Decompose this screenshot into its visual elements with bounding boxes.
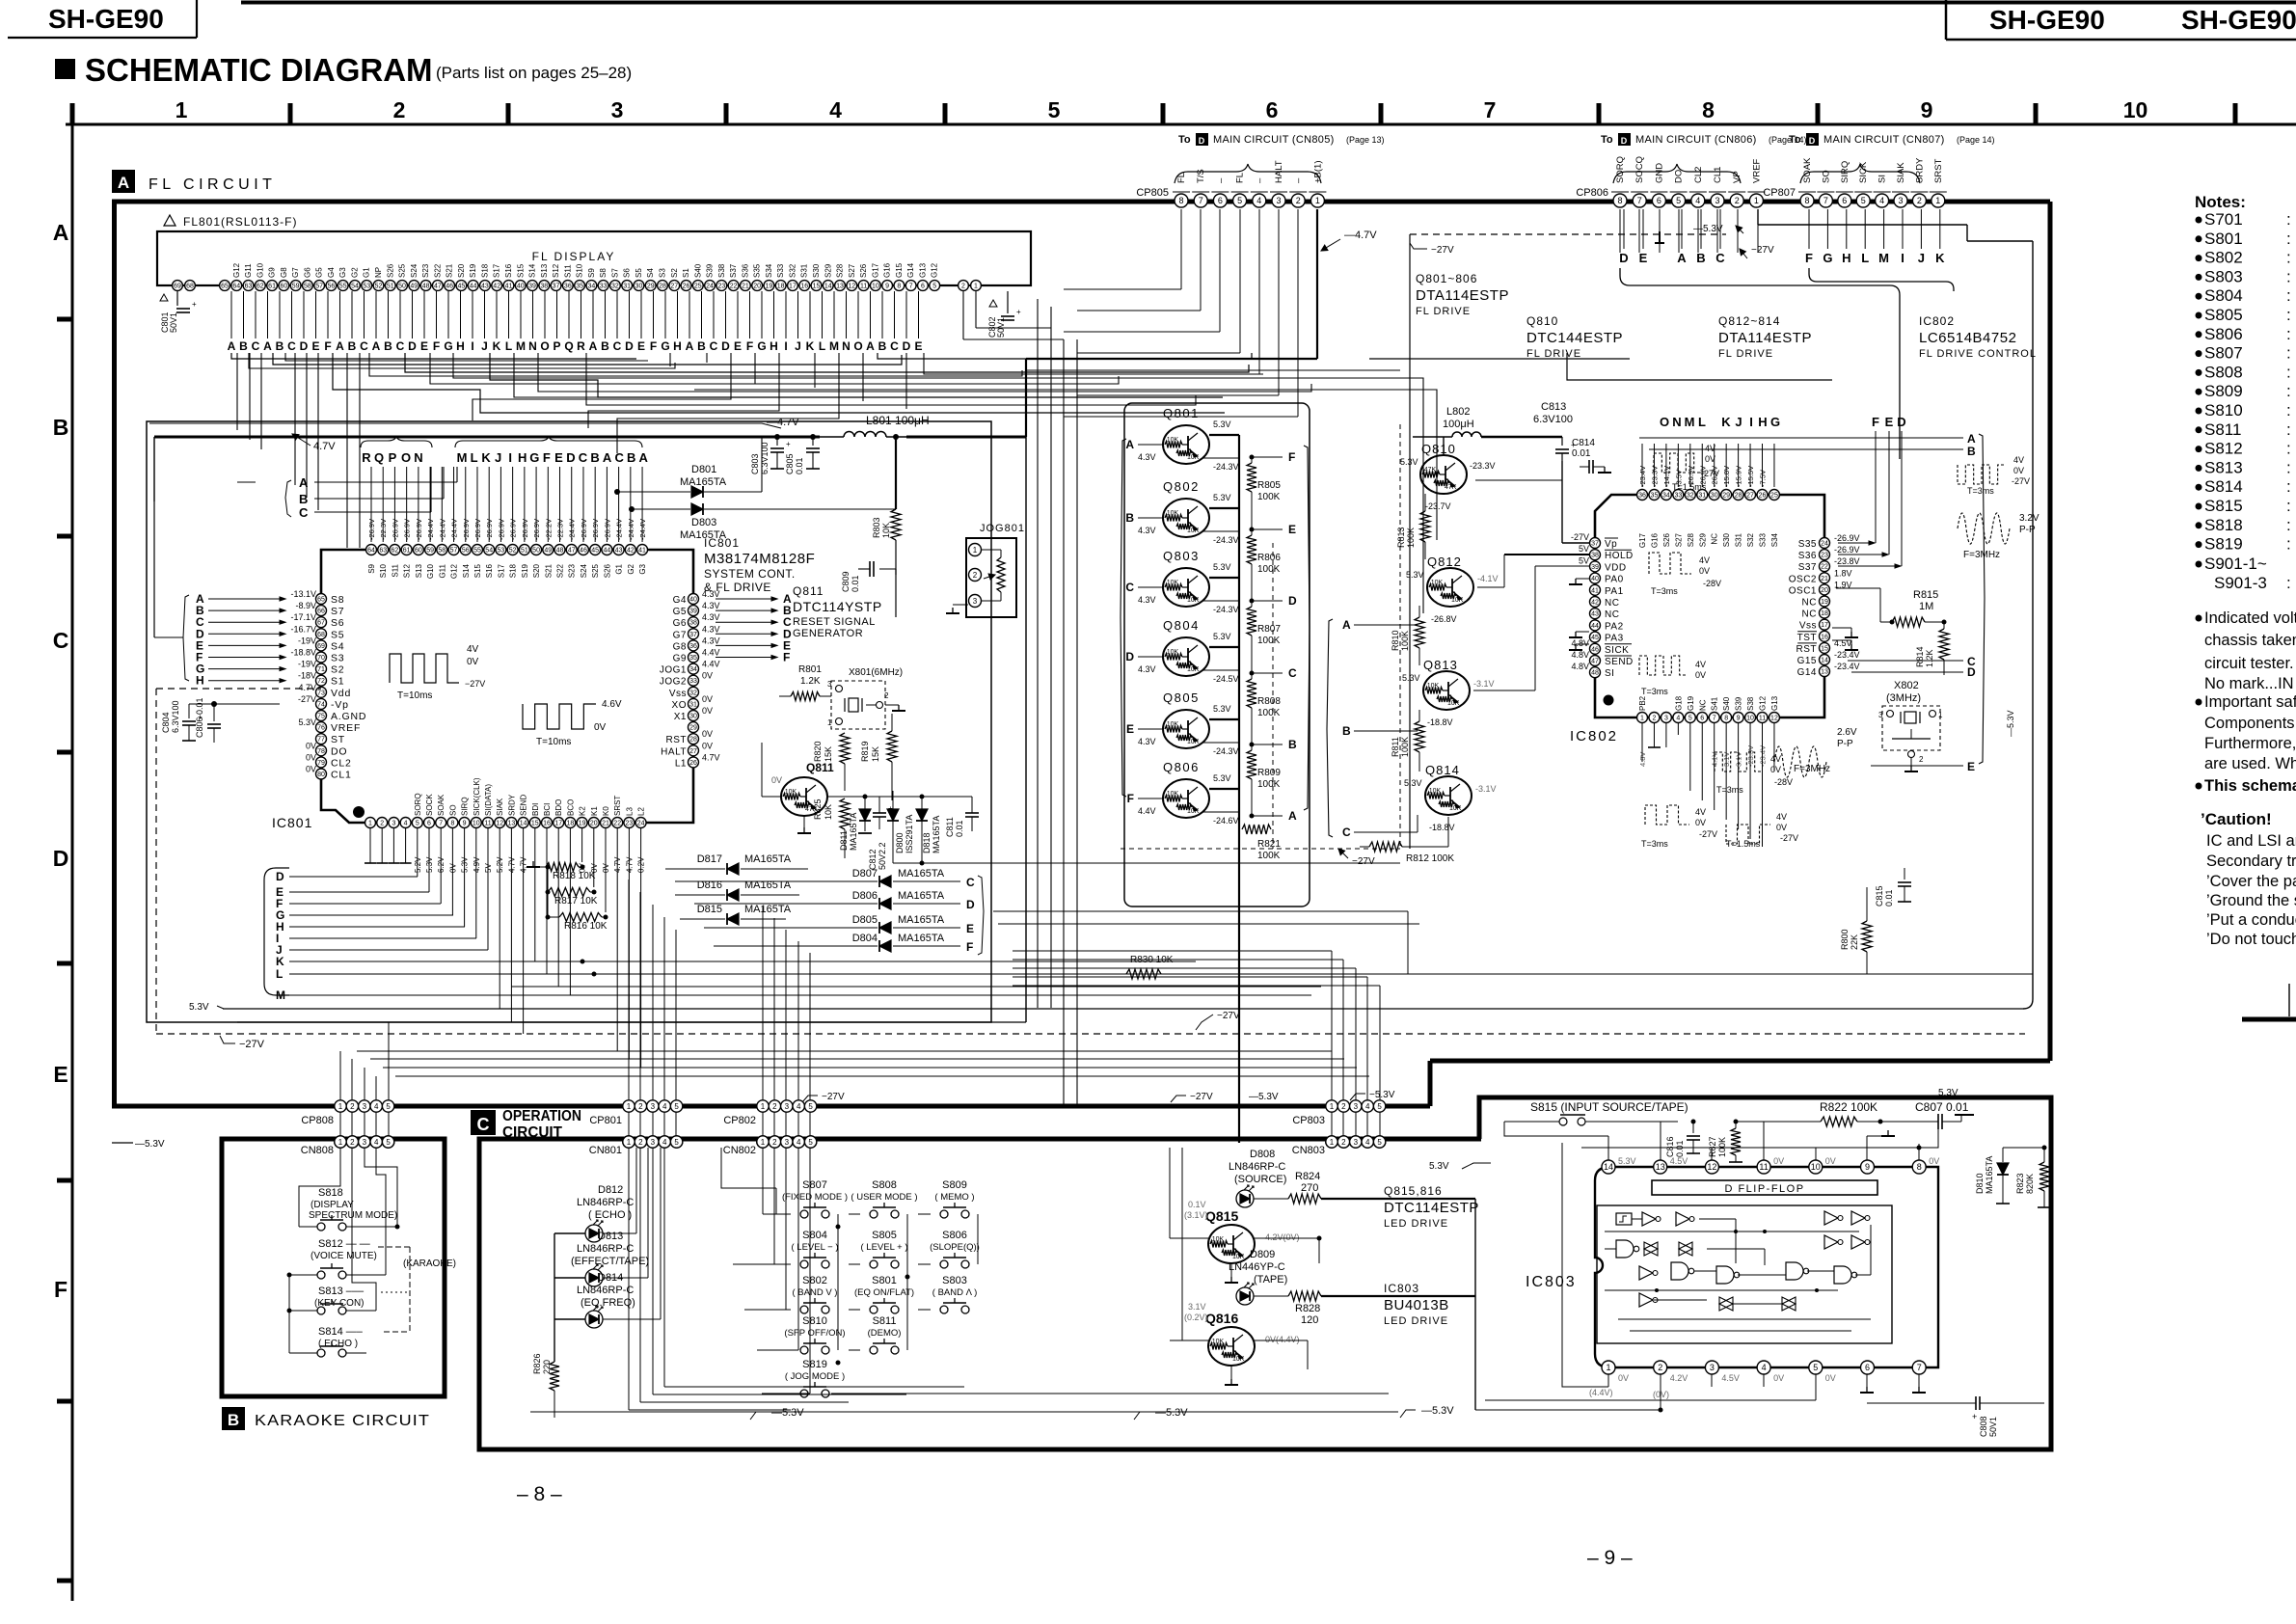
svg-text:D: D bbox=[966, 898, 975, 911]
svg-text:D: D bbox=[1619, 251, 1628, 265]
svg-text:5V: 5V bbox=[1579, 555, 1589, 565]
svg-text:3: 3 bbox=[785, 1102, 790, 1111]
svg-text:G7: G7 bbox=[673, 630, 687, 640]
svg-text:45: 45 bbox=[1591, 635, 1599, 641]
svg-text:4.3V: 4.3V bbox=[702, 636, 720, 645]
svg-text:S810: S810 bbox=[802, 1315, 827, 1327]
svg-text:0V: 0V bbox=[1825, 1156, 1836, 1166]
svg-text:5.3V: 5.3V bbox=[1213, 773, 1231, 783]
svg-text:Q812: Q812 bbox=[1427, 555, 1462, 569]
svg-text:B: B bbox=[384, 339, 392, 353]
svg-text:5.3V: 5.3V bbox=[1618, 1156, 1636, 1166]
svg-text:Q811: Q811 bbox=[793, 584, 824, 598]
svg-text:9: 9 bbox=[885, 284, 889, 290]
svg-text:63: 63 bbox=[245, 284, 253, 290]
svg-text:M38174M8128F: M38174M8128F bbox=[704, 551, 815, 567]
svg-text:50V1: 50V1 bbox=[169, 312, 178, 333]
svg-text:5: 5 bbox=[674, 1138, 679, 1147]
svg-text:(4.4V): (4.4V) bbox=[1589, 1388, 1613, 1397]
svg-text:47: 47 bbox=[568, 548, 576, 555]
svg-text:3: 3 bbox=[973, 597, 978, 606]
svg-text:50: 50 bbox=[398, 284, 406, 290]
svg-text:R809: R809 bbox=[1257, 768, 1281, 778]
svg-text:Q810: Q810 bbox=[1421, 442, 1456, 456]
svg-text:3: 3 bbox=[611, 97, 624, 122]
svg-text:C: C bbox=[299, 505, 309, 520]
svg-text:-24.4V: -24.4V bbox=[450, 519, 459, 540]
svg-text:G12: G12 bbox=[1759, 695, 1768, 711]
svg-text:14: 14 bbox=[520, 821, 527, 827]
svg-text:0V: 0V bbox=[1695, 818, 1706, 827]
svg-text:S808: S808 bbox=[2204, 363, 2243, 381]
svg-text:30: 30 bbox=[689, 714, 697, 720]
svg-text:S11: S11 bbox=[391, 563, 399, 577]
svg-text:B: B bbox=[1288, 738, 1297, 751]
svg-text:28: 28 bbox=[1735, 493, 1742, 500]
svg-text:42: 42 bbox=[1591, 600, 1599, 607]
svg-text:( ECHO ): ( ECHO ) bbox=[588, 1209, 632, 1221]
svg-text:– 8 –: – 8 – bbox=[517, 1483, 562, 1505]
svg-text:S806: S806 bbox=[942, 1230, 967, 1241]
svg-text:E: E bbox=[637, 339, 645, 353]
svg-text:(EQ.FREQ): (EQ.FREQ) bbox=[581, 1297, 635, 1309]
svg-text:P-P: P-P bbox=[1837, 739, 1853, 749]
IC801 left pins bbox=[316, 594, 327, 605]
svg-text:5: 5 bbox=[808, 1138, 813, 1147]
svg-text:C816: C816 bbox=[1665, 1136, 1675, 1157]
svg-text:22: 22 bbox=[730, 284, 738, 290]
svg-text:-26.9V: -26.9V bbox=[591, 519, 600, 540]
IC802 bottom pin stubs bbox=[1641, 723, 1643, 762]
svg-text:50V1: 50V1 bbox=[1988, 1417, 1998, 1437]
IC803 top pins bbox=[1602, 1160, 1615, 1174]
svg-text:E: E bbox=[1639, 251, 1648, 265]
svg-text:N: N bbox=[414, 450, 422, 465]
svg-text:M: M bbox=[516, 339, 526, 353]
svg-text:—5.3V: —5.3V bbox=[2006, 710, 2015, 737]
svg-text:(FIXED MODE ): (FIXED MODE ) bbox=[782, 1192, 848, 1203]
svg-text:—4.7V: —4.7V bbox=[767, 417, 799, 428]
svg-text:Q813: Q813 bbox=[1423, 658, 1458, 672]
svg-text:−27V: −27V bbox=[1431, 245, 1454, 256]
svg-text:SOCK: SOCK bbox=[425, 794, 434, 816]
svg-text:4.3V: 4.3V bbox=[702, 589, 720, 599]
svg-text:S27: S27 bbox=[1674, 532, 1683, 547]
svg-text:S41: S41 bbox=[1711, 696, 1719, 711]
svg-text:8: 8 bbox=[1804, 196, 1809, 205]
svg-text:8: 8 bbox=[1702, 97, 1715, 122]
svg-text:32: 32 bbox=[1687, 493, 1694, 500]
svg-text:64: 64 bbox=[367, 548, 375, 555]
svg-text:17: 17 bbox=[1821, 622, 1828, 629]
svg-text:VREF: VREF bbox=[1751, 158, 1762, 183]
svg-text:R805: R805 bbox=[1257, 480, 1281, 491]
svg-text:CN802: CN802 bbox=[723, 1145, 756, 1156]
svg-text:D: D bbox=[1288, 594, 1297, 608]
wire braid extra lines bbox=[249, 353, 675, 368]
inner box around IC801 area bbox=[147, 421, 991, 1022]
svg-text:Q804: Q804 bbox=[1163, 618, 1200, 633]
svg-text:28: 28 bbox=[689, 737, 697, 744]
svg-text:S802: S802 bbox=[2204, 249, 2243, 267]
svg-text:0.1V: 0.1V bbox=[1188, 1200, 1206, 1209]
svg-text:12: 12 bbox=[496, 821, 503, 827]
svg-text:S18: S18 bbox=[480, 263, 489, 278]
svg-text:39: 39 bbox=[689, 609, 697, 615]
FL801 pins bbox=[173, 281, 183, 291]
svg-text:-19V: -19V bbox=[298, 636, 316, 645]
svg-text:C: C bbox=[966, 876, 975, 889]
svg-text:OPERATION: OPERATION bbox=[502, 1108, 581, 1124]
svg-text:S8: S8 bbox=[599, 268, 608, 278]
svg-text:PA3: PA3 bbox=[1605, 634, 1624, 644]
svg-text:B: B bbox=[348, 339, 357, 353]
svg-text:9: 9 bbox=[1921, 97, 1933, 122]
svg-text:5.3V: 5.3V bbox=[1404, 778, 1422, 788]
svg-text:A: A bbox=[603, 450, 612, 465]
svg-text:69: 69 bbox=[317, 643, 325, 650]
svg-text:T=3ms: T=3ms bbox=[1641, 839, 1668, 849]
wire CP803 bus verticals bbox=[1331, 951, 1333, 1140]
svg-text:S23: S23 bbox=[568, 563, 577, 578]
wire rows E mesh bbox=[357, 1050, 1332, 1052]
svg-text:L2: L2 bbox=[637, 807, 646, 816]
svg-text:Notes:: Notes: bbox=[2195, 193, 2246, 211]
svg-text:G5: G5 bbox=[315, 267, 324, 278]
svg-text:-26.9V: -26.9V bbox=[403, 519, 412, 540]
svg-text:19: 19 bbox=[579, 821, 586, 827]
svg-text:X1: X1 bbox=[674, 712, 687, 722]
svg-text:S29: S29 bbox=[824, 263, 832, 278]
svg-text:10K: 10K bbox=[1167, 791, 1179, 798]
svg-text:S11: S11 bbox=[563, 264, 572, 278]
svg-text:2: 2 bbox=[1917, 196, 1922, 205]
svg-text:1: 1 bbox=[1935, 196, 1940, 205]
svg-text:S33: S33 bbox=[1759, 532, 1768, 547]
svg-text:4.5V: 4.5V bbox=[1721, 1373, 1740, 1383]
svg-text:47: 47 bbox=[1591, 659, 1599, 665]
svg-text:Q805: Q805 bbox=[1163, 690, 1200, 705]
svg-text:1: 1 bbox=[761, 1138, 766, 1147]
svg-text:31: 31 bbox=[623, 284, 631, 290]
svg-text:(EQ ON/FLAT): (EQ ON/FLAT) bbox=[854, 1287, 914, 1298]
svg-text:R810: R810 bbox=[1391, 630, 1400, 651]
svg-text:-26.9V: -26.9V bbox=[1834, 533, 1860, 543]
svg-text:Q810: Q810 bbox=[1526, 314, 1558, 328]
svg-text:R813: R813 bbox=[1396, 527, 1406, 548]
svg-text:6: 6 bbox=[427, 821, 431, 827]
svg-text:22: 22 bbox=[1821, 564, 1828, 571]
svg-text:S811: S811 bbox=[873, 1315, 897, 1327]
wire CN803 drops to Q815 Q816 bbox=[1169, 1148, 1171, 1238]
wire 4.7V bus thick bbox=[154, 436, 820, 439]
svg-text:4: 4 bbox=[1365, 1102, 1370, 1111]
svg-text:C: C bbox=[1288, 666, 1297, 680]
svg-text:D804: D804 bbox=[852, 933, 878, 944]
svg-text:C808: C808 bbox=[1979, 1416, 1988, 1437]
svg-text:39: 39 bbox=[528, 284, 536, 290]
svg-text:P: P bbox=[553, 339, 560, 353]
svg-text:3: 3 bbox=[392, 821, 395, 827]
svg-text:H: H bbox=[1842, 251, 1850, 265]
svg-text:S26: S26 bbox=[386, 263, 394, 278]
svg-text:S37: S37 bbox=[729, 263, 738, 278]
svg-text:S5: S5 bbox=[331, 629, 344, 640]
svg-text:100μH: 100μH bbox=[1443, 419, 1474, 430]
svg-text:LN846RP-C: LN846RP-C bbox=[577, 1243, 634, 1255]
svg-text:B: B bbox=[1342, 724, 1351, 738]
svg-text:B: B bbox=[590, 450, 599, 465]
svg-text:BDO: BDO bbox=[554, 799, 563, 816]
svg-text:S34: S34 bbox=[765, 263, 773, 278]
wire CP808 bus verticals bbox=[339, 1051, 341, 1140]
svg-text:6: 6 bbox=[921, 284, 925, 290]
svg-text:G10: G10 bbox=[256, 262, 264, 278]
svg-text:S26: S26 bbox=[859, 263, 868, 278]
inner box around Q801-806 column bbox=[1124, 403, 1310, 907]
diode D803 bbox=[632, 508, 690, 510]
svg-text:E: E bbox=[1126, 722, 1134, 736]
svg-text:C809: C809 bbox=[841, 571, 851, 592]
IC802 top pins bbox=[1637, 490, 1648, 501]
svg-text:D807: D807 bbox=[852, 868, 878, 880]
svg-text:4: 4 bbox=[797, 1102, 801, 1111]
svg-text:25: 25 bbox=[694, 284, 702, 290]
IC801 top pins bbox=[366, 545, 377, 555]
svg-text:S21: S21 bbox=[446, 263, 454, 278]
svg-text:SYSTEM CONT.: SYSTEM CONT. bbox=[704, 567, 796, 581]
svg-text:6: 6 bbox=[1266, 97, 1279, 122]
svg-text:G12: G12 bbox=[450, 563, 459, 579]
svg-text:57: 57 bbox=[315, 284, 323, 290]
svg-text:G7: G7 bbox=[291, 267, 300, 278]
svg-text:S40: S40 bbox=[1722, 696, 1731, 711]
svg-text:S818: S818 bbox=[2204, 516, 2243, 534]
svg-text:-22.3V: -22.3V bbox=[379, 519, 388, 540]
svg-text:RST: RST bbox=[1796, 644, 1818, 655]
svg-text:2: 2 bbox=[1341, 1138, 1346, 1147]
svg-text:MA165TA: MA165TA bbox=[932, 816, 941, 853]
svg-text:G15: G15 bbox=[1797, 656, 1817, 666]
svg-text:21: 21 bbox=[742, 284, 749, 290]
svg-text:58: 58 bbox=[304, 284, 311, 290]
svg-text:15K: 15K bbox=[824, 746, 833, 762]
svg-text:12: 12 bbox=[1707, 1162, 1716, 1172]
svg-text:L: L bbox=[819, 339, 825, 353]
svg-text:11: 11 bbox=[860, 284, 867, 290]
svg-text:G13: G13 bbox=[918, 262, 927, 278]
svg-text:0V: 0V bbox=[594, 722, 607, 733]
svg-text:2: 2 bbox=[1919, 755, 1924, 764]
svg-text:1: 1 bbox=[761, 1102, 766, 1111]
section label C OPERATION CIRCUIT bbox=[471, 1110, 496, 1135]
svg-text:15: 15 bbox=[1821, 645, 1828, 652]
svg-text:C: C bbox=[1125, 581, 1134, 594]
waveform pulses inside IC802 low bbox=[1715, 752, 1763, 771]
svg-text:2: 2 bbox=[772, 1138, 777, 1147]
svg-text:G: G bbox=[529, 450, 539, 465]
svg-text:S32: S32 bbox=[1746, 532, 1755, 547]
svg-text:-3.1V: -3.1V bbox=[1473, 679, 1495, 689]
svg-text:3: 3 bbox=[363, 1102, 367, 1111]
svg-text::: : bbox=[2286, 249, 2291, 267]
svg-text:G5: G5 bbox=[673, 607, 687, 617]
svg-text:SH-GE90: SH-GE90 bbox=[2181, 5, 2296, 35]
svg-text:270: 270 bbox=[1301, 1182, 1318, 1194]
svg-text:Indicated volt: Indicated volt bbox=[2204, 609, 2296, 627]
svg-text:R815: R815 bbox=[1913, 589, 1938, 601]
svg-text:-26.9V: -26.9V bbox=[1834, 545, 1860, 555]
svg-text:-23.7V: -23.7V bbox=[1425, 501, 1451, 511]
wire verticals Q810 column to IC802 bbox=[1475, 479, 1562, 481]
svg-text:1: 1 bbox=[1938, 711, 1943, 719]
svg-text:0V: 0V bbox=[306, 765, 316, 774]
svg-text:4V: 4V bbox=[467, 644, 479, 655]
svg-text:48: 48 bbox=[556, 548, 564, 555]
svg-text:E: E bbox=[914, 339, 922, 353]
svg-text:6: 6 bbox=[1657, 196, 1661, 205]
svg-text:PA1: PA1 bbox=[1605, 586, 1624, 597]
svg-text:S13: S13 bbox=[415, 563, 423, 578]
svg-text:K: K bbox=[1721, 415, 1731, 429]
svg-text:S22: S22 bbox=[556, 563, 565, 578]
svg-text:CP805: CP805 bbox=[1136, 187, 1169, 199]
svg-text:IC803: IC803 bbox=[1384, 1282, 1419, 1295]
svg-text:C814: C814 bbox=[1572, 438, 1595, 448]
svg-text:56: 56 bbox=[462, 548, 470, 555]
svg-text:32: 32 bbox=[611, 284, 619, 290]
svg-text:0V: 0V bbox=[702, 729, 713, 739]
svg-text:G14: G14 bbox=[906, 262, 915, 278]
svg-text:M: M bbox=[1685, 415, 1695, 429]
svg-text:CN803: CN803 bbox=[1292, 1145, 1325, 1156]
svg-text:A: A bbox=[336, 339, 344, 353]
wire CP802 bus verticals bbox=[762, 907, 764, 1140]
svg-text::: : bbox=[2286, 286, 2291, 305]
svg-text:HOLD: HOLD bbox=[1605, 551, 1634, 561]
svg-text:8: 8 bbox=[1917, 1162, 1922, 1172]
svg-text:38: 38 bbox=[540, 284, 548, 290]
svg-text:9: 9 bbox=[463, 821, 467, 827]
svg-text:G16: G16 bbox=[883, 262, 892, 278]
svg-text:4V: 4V bbox=[1695, 660, 1706, 669]
svg-text:A: A bbox=[263, 339, 272, 353]
svg-text:4.5V: 4.5V bbox=[1670, 1156, 1688, 1166]
svg-text:4.3V: 4.3V bbox=[702, 612, 720, 622]
svg-text:14: 14 bbox=[1604, 1162, 1613, 1172]
svg-text::: : bbox=[2286, 267, 2291, 285]
svg-text:A: A bbox=[1342, 618, 1351, 632]
svg-text:S16: S16 bbox=[504, 263, 513, 278]
svg-text:+B(1): +B(1) bbox=[1312, 161, 1323, 184]
svg-text:(3.1V): (3.1V) bbox=[1184, 1210, 1208, 1220]
svg-text:L802: L802 bbox=[1446, 406, 1470, 418]
svg-text:S27: S27 bbox=[848, 263, 856, 278]
svg-text:D812: D812 bbox=[598, 1184, 623, 1196]
svg-text:1: 1 bbox=[338, 1102, 343, 1111]
svg-text:Q802: Q802 bbox=[1163, 479, 1200, 494]
svg-text:33: 33 bbox=[689, 678, 697, 685]
svg-text:3: 3 bbox=[1276, 196, 1281, 205]
svg-text:10K: 10K bbox=[1167, 721, 1179, 728]
svg-text:C: C bbox=[53, 628, 69, 653]
svg-text:circuit tester.: circuit tester. bbox=[2204, 655, 2294, 672]
svg-text:100K: 100K bbox=[1400, 737, 1410, 757]
svg-text:26: 26 bbox=[689, 760, 697, 767]
svg-text:46: 46 bbox=[1591, 646, 1599, 653]
bottom right partial line bbox=[2242, 1017, 2296, 1022]
svg-text:CL2: CL2 bbox=[1693, 167, 1704, 183]
svg-text:22: 22 bbox=[613, 821, 621, 827]
wire bottom long horizontals bbox=[540, 1409, 1475, 1411]
svg-text:73: 73 bbox=[317, 690, 325, 696]
svg-text:A.GND: A.GND bbox=[331, 711, 366, 722]
waveform sine 2.6V below IC802 bbox=[1774, 746, 1826, 777]
svg-text:CP802: CP802 bbox=[723, 1115, 756, 1126]
svg-text:K: K bbox=[806, 339, 815, 353]
section label A FL CIRCUIT bbox=[112, 170, 135, 193]
svg-text:0.01: 0.01 bbox=[851, 575, 860, 592]
svg-text:G2: G2 bbox=[350, 267, 359, 278]
svg-text:S807: S807 bbox=[2204, 344, 2243, 363]
svg-text:13: 13 bbox=[508, 821, 516, 827]
svg-text:5.3V: 5.3V bbox=[1400, 457, 1418, 467]
svg-text:8: 8 bbox=[1724, 716, 1728, 722]
svg-text:10: 10 bbox=[473, 821, 480, 827]
svg-text:C: C bbox=[1715, 251, 1725, 265]
svg-text:S26: S26 bbox=[1662, 532, 1671, 547]
svg-text:15K: 15K bbox=[871, 746, 880, 762]
svg-text:1.2K: 1.2K bbox=[1925, 649, 1934, 667]
svg-text:12: 12 bbox=[1770, 716, 1778, 722]
svg-text:+: + bbox=[1016, 308, 1021, 316]
svg-text:S1: S1 bbox=[682, 268, 690, 278]
svg-text:S3: S3 bbox=[331, 653, 344, 664]
svg-text:S804: S804 bbox=[2204, 286, 2243, 305]
svg-text:3: 3 bbox=[827, 680, 832, 689]
svg-text:4.8V: 4.8V bbox=[1571, 638, 1589, 648]
svg-text:G4: G4 bbox=[673, 595, 687, 606]
svg-text:BDI: BDI bbox=[531, 803, 540, 816]
svg-text:R818 10K: R818 10K bbox=[553, 871, 596, 881]
svg-text:1: 1 bbox=[176, 97, 188, 122]
svg-text:S6: S6 bbox=[623, 268, 632, 278]
svg-text:0V: 0V bbox=[1929, 1156, 1939, 1166]
svg-text:20: 20 bbox=[1821, 587, 1828, 594]
svg-text:NC: NC bbox=[1802, 609, 1817, 620]
svg-text:54: 54 bbox=[351, 284, 359, 290]
svg-text:-24.6V: -24.6V bbox=[1213, 816, 1239, 826]
wire CP806 drops bbox=[1619, 209, 1621, 253]
svg-text:7: 7 bbox=[1917, 1363, 1922, 1372]
svg-text:58: 58 bbox=[438, 548, 446, 555]
svg-text:R821: R821 bbox=[1257, 839, 1281, 850]
svg-text:This schema: This schema bbox=[2204, 777, 2296, 795]
svg-text:S807: S807 bbox=[802, 1179, 827, 1191]
svg-text:I: I bbox=[784, 339, 787, 353]
svg-text:S901-1~: S901-1~ bbox=[2204, 555, 2267, 573]
svg-text:4.6V: 4.6V bbox=[602, 699, 622, 710]
svg-text:E: E bbox=[1885, 415, 1894, 429]
svg-text:E: E bbox=[311, 339, 319, 353]
IC803 internal wires bbox=[1632, 1218, 1642, 1220]
svg-text:2: 2 bbox=[1652, 716, 1656, 722]
svg-text:D: D bbox=[300, 339, 309, 353]
svg-text:R801: R801 bbox=[798, 664, 822, 675]
svg-text:-27V: -27V bbox=[1780, 833, 1798, 843]
svg-text:R823: R823 bbox=[2015, 1173, 2025, 1194]
svg-text:C: C bbox=[396, 339, 405, 353]
